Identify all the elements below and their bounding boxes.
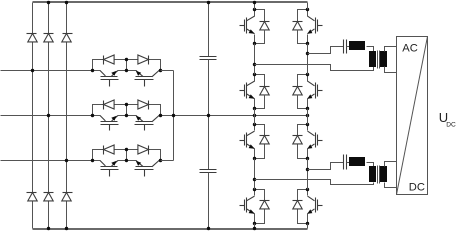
diode D3a (row 3, points left) <box>104 145 115 155</box>
wire - cap to inductor (upper) <box>347 46 351 48</box>
wire - positive DC rail (top) <box>33 1 308 3</box>
IGBT T5 <box>240 125 255 159</box>
junction - bottom rail at leg 2 <box>47 227 50 230</box>
diode D3 (upper rectifier) <box>44 34 54 42</box>
junction - T1 collector node <box>253 8 256 11</box>
junction - midpoint rail at left bridge leg <box>253 114 256 117</box>
wire - phase a input <box>1 70 161 72</box>
IGBT T2 <box>240 75 255 109</box>
wire - row 1 left jog to diode branch <box>93 60 104 71</box>
IGBT T8 <box>307 190 322 224</box>
wire - capacitor column lower <box>208 173 210 229</box>
junction - bottom rail at leg 3 <box>65 227 68 230</box>
wire - lower bridge left tap to primary bottom <box>255 180 374 185</box>
converter block U1 (AC/DC rectifier) <box>397 37 428 195</box>
diode DT3 (antiparallel) <box>293 22 303 30</box>
junction - left leg tap (upper bridge) <box>253 63 256 66</box>
wire - negative DC rail (bottom) <box>33 228 308 230</box>
label U_DC (output voltage) <box>439 110 456 128</box>
diode DT6 (antiparallel) <box>260 201 270 209</box>
wire - row 3 diode branch middle <box>115 149 139 151</box>
diode DT8 (antiparallel) <box>293 201 303 209</box>
IGBT T4 <box>307 75 322 109</box>
junction - T4 emitter node <box>306 107 309 110</box>
diode DT4 (antiparallel) <box>293 87 303 95</box>
wire - row 3 diode branch right + down jog <box>149 150 161 161</box>
junction - top rail at leg 2 <box>47 1 50 4</box>
IGBT S2b (row 2 right) <box>135 116 160 131</box>
transformer TR2 (lower) <box>369 166 387 184</box>
wire - row 2 centre link <box>126 105 128 116</box>
diode D5 (upper rectifier) <box>62 34 73 42</box>
junction - row 2 right node <box>159 114 162 117</box>
junction - top rail at leg 3 <box>65 1 68 4</box>
junction - left leg at bottom rail <box>253 227 256 230</box>
diode D2 (lower rectifier) <box>27 193 38 201</box>
junction - row 3 left node <box>91 159 94 162</box>
IGBT S3a (row 3 left) <box>100 161 119 177</box>
wire - cell diode down link (DT5) <box>255 145 265 159</box>
junction - phase a to leg 1 <box>31 69 34 72</box>
wire - cell diode down link (DT8) <box>298 210 308 224</box>
junction - T7 collector node <box>306 123 309 126</box>
IGBT T3 <box>307 10 322 44</box>
wire - TR1 secondary bottom lead <box>385 67 397 73</box>
junction - T4 collector node <box>306 73 309 76</box>
svg-text:AC: AC <box>402 43 418 55</box>
junction - T5 collector node <box>253 123 256 126</box>
diode D3b (row 3, points right) <box>138 145 149 155</box>
junction - row 1 left node <box>91 69 94 72</box>
wire - lower bridge right tap to filter <box>308 163 344 170</box>
capacitor Cr1 (upper resonant) <box>344 40 347 54</box>
junction - C1 to top rail <box>207 1 210 4</box>
wire - cell top link (T3) <box>298 10 308 22</box>
junction - T6 collector node <box>253 188 256 191</box>
IGBT T7 <box>307 125 322 159</box>
IGBT S1b (row 1 right) <box>135 71 160 87</box>
IGBT T6 <box>240 190 255 224</box>
junction - row 2 diode branch centre <box>125 103 128 106</box>
diode D1b (row 1, points right) <box>138 55 149 65</box>
wire - cell top link (T2) <box>255 75 265 87</box>
wire - phase b input / midpoint rail <box>1 115 308 117</box>
wire - row 3 left jog to diode branch <box>93 150 104 161</box>
junction - row 3 axis centre <box>125 159 128 162</box>
capacitor C2 (lower dc-link) <box>200 170 217 173</box>
junction - bus to midpoint rail <box>172 114 175 117</box>
diode D4 (lower rectifier) <box>44 193 54 201</box>
junction - phase b to leg 2 <box>47 114 50 117</box>
diode D2b (row 2, points right) <box>138 100 149 110</box>
wire - cell top link (T7) <box>298 125 308 136</box>
wire - row 1 diode branch right + down jog <box>149 60 161 71</box>
wire - inductor to transformer primary (upper) <box>367 47 374 52</box>
wire - upper bridge right tap to filter <box>308 47 344 54</box>
capacitor C1 (upper dc-link) <box>200 57 217 60</box>
junction - left leg at top rail <box>253 1 256 4</box>
wire - capacitor column middle <box>208 60 210 170</box>
junction - C2 to bottom rail <box>207 227 210 230</box>
junction - T3 collector node <box>306 8 309 11</box>
wire - rectifier leg 3 <box>66 3 68 229</box>
wire - TR2 secondary bottom lead <box>385 183 397 188</box>
diode D2a (row 2, points left) <box>104 100 115 110</box>
junction - phase c to leg 3 <box>65 159 68 162</box>
wire - TR1 secondary top lead <box>385 47 397 52</box>
junction - row 3 diode branch centre <box>125 148 128 151</box>
wire - inductor to transformer primary (lower) <box>367 163 374 167</box>
diode DT1 (antiparallel) <box>260 22 270 30</box>
wire - rectifier leg 2 <box>48 3 50 229</box>
wire - right bridge leg segments <box>307 3 309 229</box>
wire - phase c input <box>1 160 161 162</box>
wire - row 3 centre link <box>126 150 128 161</box>
wire - cell diode down link (DT4) <box>298 95 308 109</box>
junction - T8 collector node <box>306 188 309 191</box>
junction - row 2 left node <box>91 114 94 117</box>
wire - cell diode down link (DT3) <box>298 30 308 44</box>
wire - left bridge leg segments <box>254 3 256 229</box>
junction - midpoint rail at right bridge leg <box>306 114 309 117</box>
wire - cap to inductor (lower) <box>347 162 351 164</box>
junction - T5 emitter node <box>253 157 256 160</box>
wire - cell top link (T6) <box>255 190 265 201</box>
junction - right leg tap (upper bridge) <box>306 52 309 55</box>
junction - row 1 right node <box>159 69 162 72</box>
wire - capacitor column upper <box>208 3 210 57</box>
wire - cell top link (T5) <box>255 125 265 136</box>
svg-text:DC: DC <box>409 182 425 194</box>
wire - cell diode down link (DT6) <box>255 210 265 224</box>
junction - T2 emitter node <box>253 107 256 110</box>
junction - row 2 axis centre <box>125 114 128 117</box>
wire - cell top link (T8) <box>298 190 308 201</box>
inductor Lr2 (lower, solid) <box>349 157 365 166</box>
IGBT S3b (row 3 right) <box>135 161 160 177</box>
junction - T7 emitter node <box>306 157 309 160</box>
junction - T8 emitter node <box>306 222 309 225</box>
wire - row 2 left jog to diode branch <box>93 105 104 116</box>
junction - row 3 right node <box>159 159 162 162</box>
junction - T2 collector node <box>253 73 256 76</box>
junction - T1 emitter node <box>253 42 256 45</box>
wire - row 1 diode branch middle <box>115 59 139 61</box>
wire - upper bridge left tap to primary bottom <box>255 65 374 71</box>
diode D1 (upper rectifier) <box>27 34 38 42</box>
wire - row 2 diode branch middle <box>115 104 139 106</box>
IGBT T1 <box>240 10 255 44</box>
wire - cell diode down link (DT7) <box>298 145 308 159</box>
junction - T6 emitter node <box>253 222 256 225</box>
wire - row 1 centre link <box>126 60 128 71</box>
junction - capacitor midpoint <box>207 114 210 117</box>
wire - cell diode down link (DT2) <box>255 95 265 109</box>
junction - left leg tap (lower bridge) <box>253 178 256 181</box>
wire - cell diode down link (DT1) <box>255 30 265 44</box>
diode DT2 (antiparallel) <box>260 87 270 95</box>
junction - right leg tap (lower bridge) <box>306 168 309 171</box>
IGBT S1a (row 1 left) <box>100 71 119 87</box>
diode DT7 (antiparallel) <box>293 136 303 144</box>
junction - T3 emitter node <box>306 42 309 45</box>
svg-text:DC: DC <box>446 121 456 128</box>
diode D6 (lower rectifier) <box>62 193 73 201</box>
diode DT5 (antiparallel) <box>260 136 270 144</box>
wire - cell top link (T1) <box>255 10 265 22</box>
wire - row 2 diode branch right + down jog <box>149 105 161 116</box>
wire - right bus of bidirectional switches <box>161 71 174 161</box>
junction - row 1 diode branch centre <box>125 58 128 61</box>
transformer TR1 (upper) <box>369 51 387 69</box>
inductor Lr1 (upper, solid) <box>349 41 365 50</box>
diode D1a (row 1, points left) <box>104 55 115 65</box>
junction - row 1 axis centre <box>125 69 128 72</box>
wire - rectifier leg 1 <box>32 3 34 229</box>
capacitor Cr2 (lower resonant) <box>344 155 347 170</box>
IGBT S2a (row 2 left) <box>100 116 119 131</box>
wire - cell top link (T4) <box>298 75 308 87</box>
wire - TR2 secondary top lead <box>385 162 397 167</box>
